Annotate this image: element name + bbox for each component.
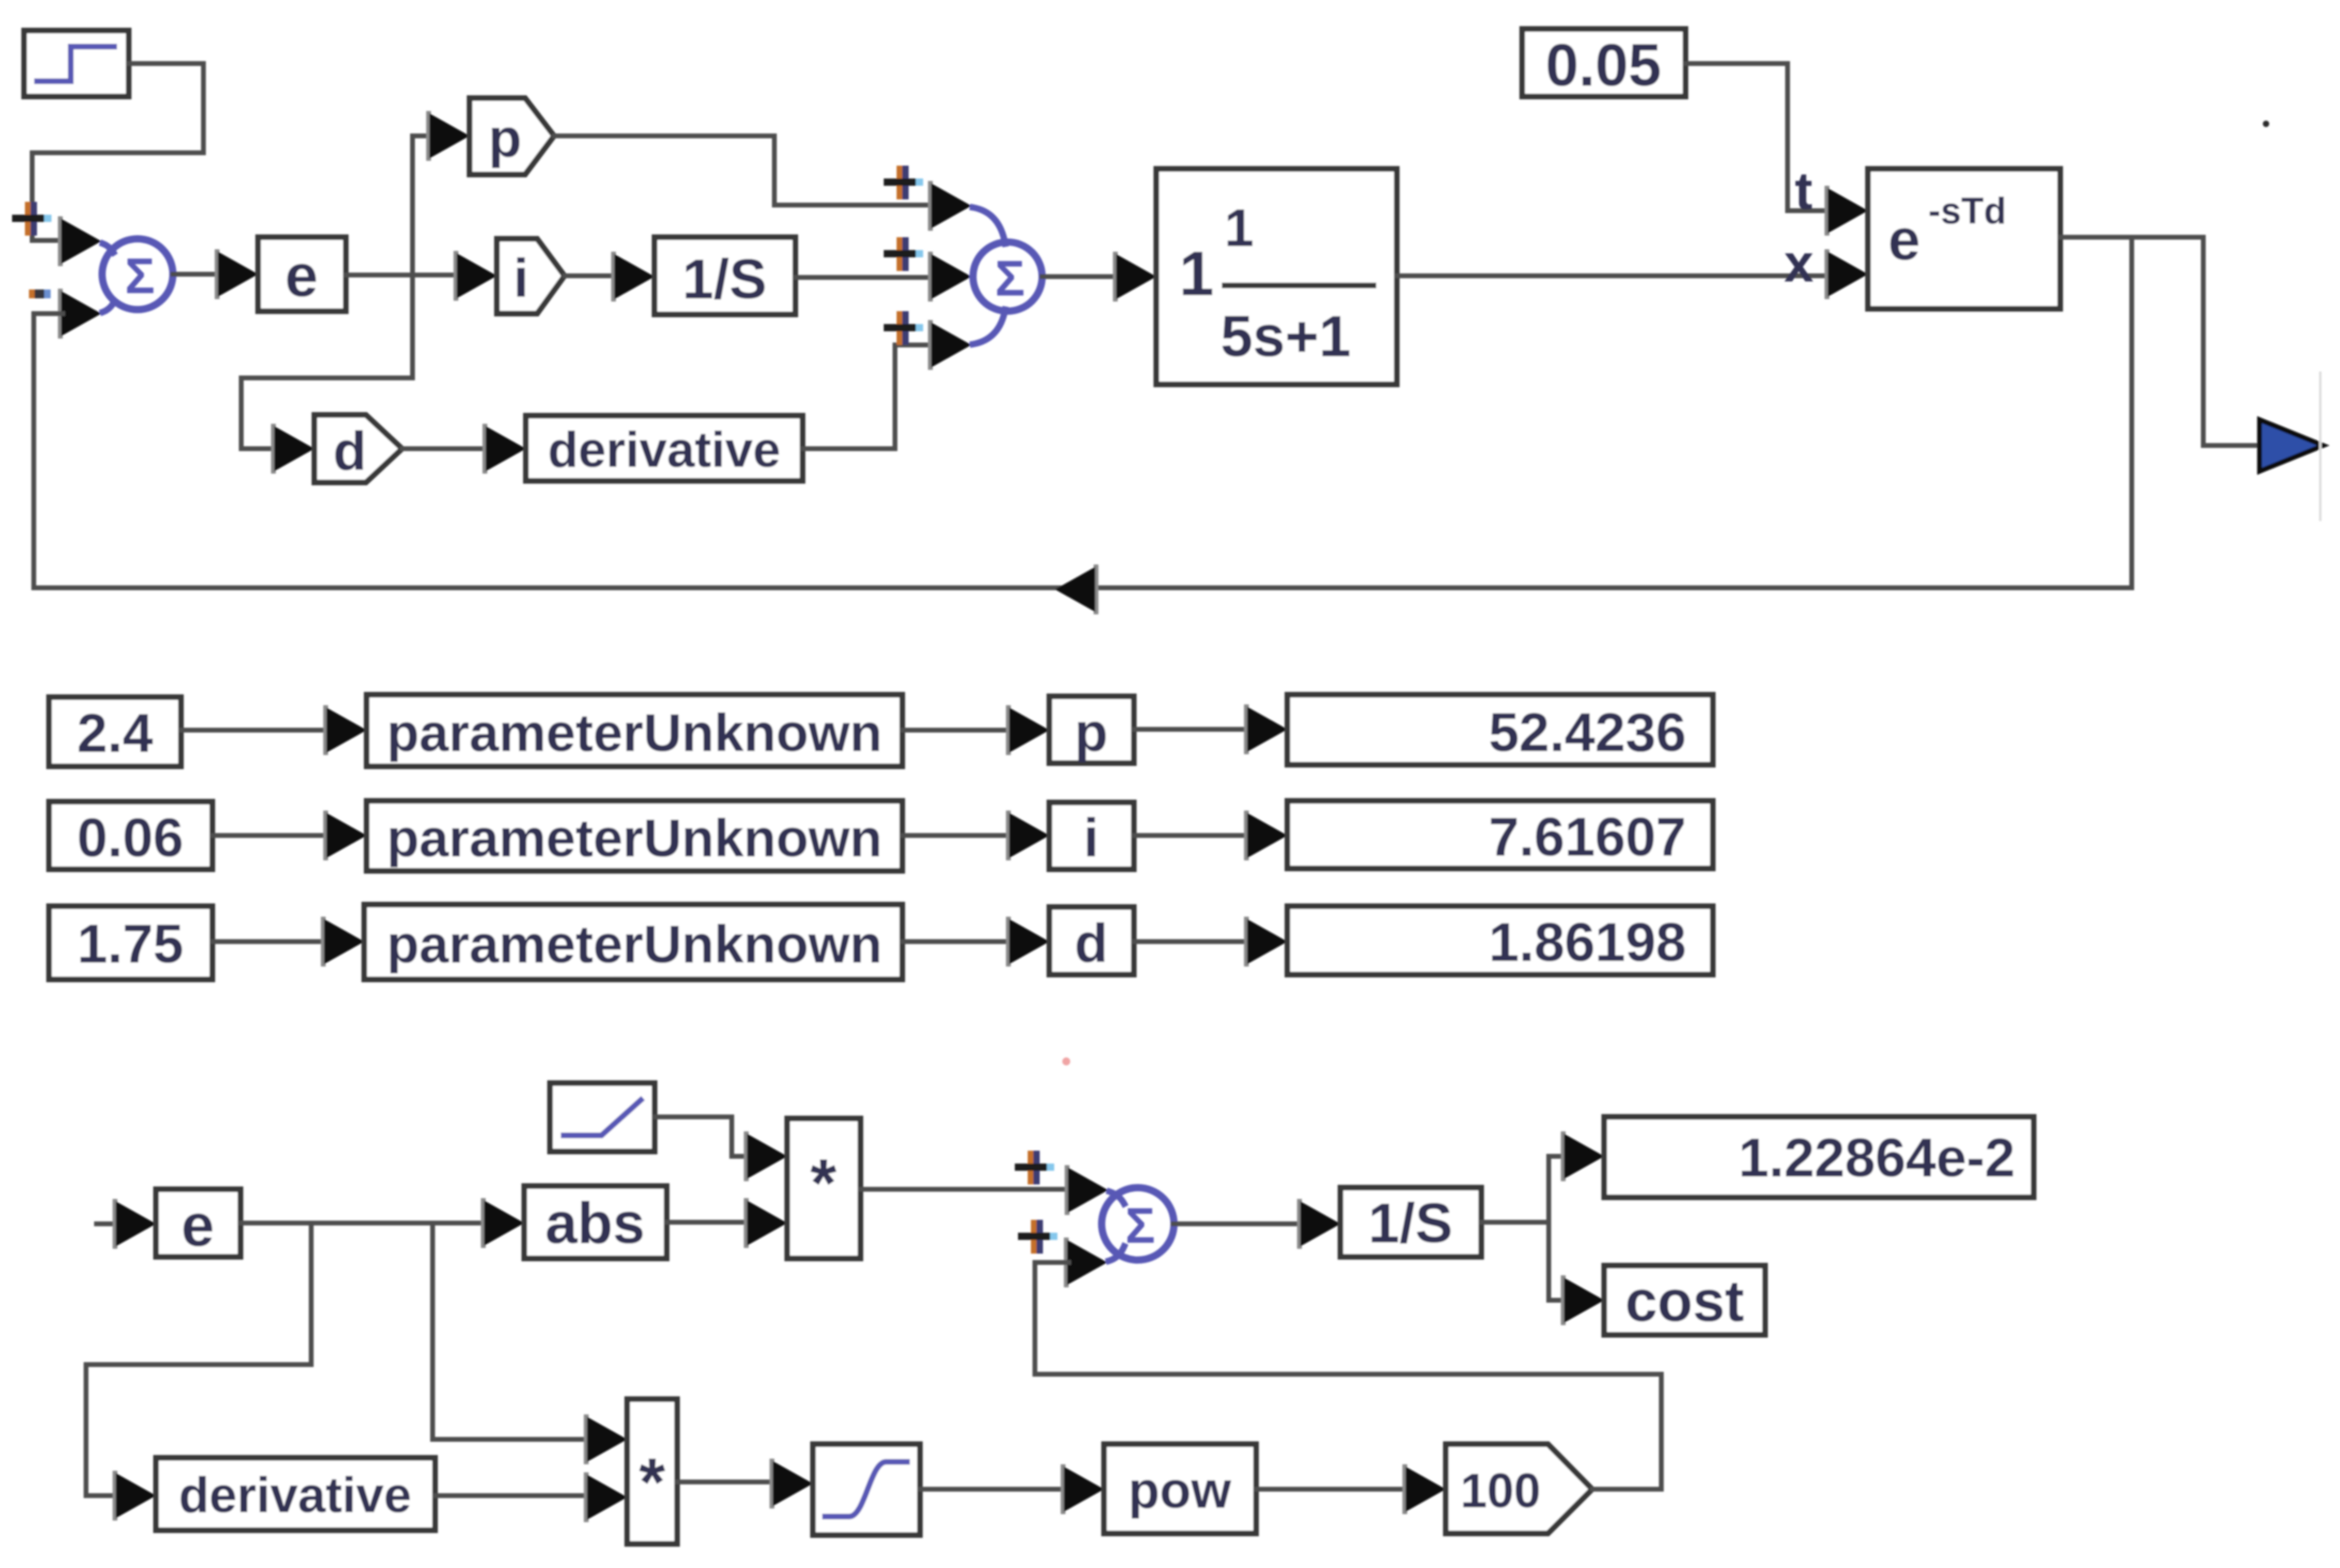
arrowhead into integrator 1/S <box>611 252 655 302</box>
svg-text:e: e <box>1888 208 1920 273</box>
svg-text:x: x <box>1784 233 1814 293</box>
svg-text:0.06: 0.06 <box>77 807 183 868</box>
block d (goto tag) <box>1049 907 1134 975</box>
multiplier block M2 <box>627 1399 677 1544</box>
svg-text:derivative: derivative <box>179 1468 412 1524</box>
arrowhead into gain 100 <box>1402 1464 1446 1514</box>
svg-text:1.75: 1.75 <box>77 913 183 975</box>
wire parameterUnknown P to block p <box>902 728 1011 733</box>
svg-text:p: p <box>1074 702 1108 763</box>
svg-text:Σ: Σ <box>125 249 154 305</box>
abs block <box>524 1186 667 1258</box>
wire junction down to gain d <box>241 275 413 449</box>
gain i <box>497 239 564 314</box>
block e (bottom error input) <box>156 1189 240 1259</box>
arrowhead into display 1.22864e-2 <box>1561 1131 1604 1181</box>
wire e to abs (with junctions) <box>240 1221 486 1225</box>
constant block 0.05 <box>1522 29 1685 99</box>
arrowhead into block e <box>215 249 258 299</box>
wire derivative output to summer S2 bottom plus input <box>803 345 933 449</box>
block cost <box>1604 1266 1765 1335</box>
node plus sign S2 bottom <box>884 311 923 345</box>
svg-text:1: 1 <box>1179 238 1213 309</box>
wire e output to gain i input (with junction at x=513) <box>346 273 455 277</box>
summer S3 (cost sum) <box>1102 1188 1174 1261</box>
gain block 100 <box>1446 1444 1592 1533</box>
svg-text:cost: cost <box>1625 1270 1744 1334</box>
svg-text:0.05: 0.05 <box>1546 32 1661 99</box>
node plus sign S3 bottom <box>1018 1220 1057 1254</box>
node minus sign S1 <box>29 289 51 298</box>
svg-text:abs: abs <box>545 1192 645 1256</box>
wire pow output to gain 100 <box>1256 1487 1407 1492</box>
saturation block <box>813 1444 920 1535</box>
output port arrow <box>2260 420 2323 471</box>
wire 1.75 to parameterUnknown D <box>212 939 326 944</box>
wire plant output to delay block x input <box>1397 273 1829 278</box>
display block 1.22864e-2 <box>1604 1117 2034 1197</box>
wire M1 output to summer S3 top plus input <box>860 1187 1069 1192</box>
wire gain p output to summer S2 first plus input <box>554 136 933 205</box>
arrowhead into S3 top input <box>1065 1165 1108 1215</box>
arrowhead into parameterUnknown P <box>323 705 367 755</box>
svg-text:100: 100 <box>1460 1464 1541 1518</box>
block p (goto tag) <box>1049 696 1134 763</box>
arrowhead into block i <box>1006 811 1049 860</box>
wire gain i output to integrator 1/S <box>564 273 615 278</box>
wire derivative output to multiplier M2 bottom input <box>435 1493 589 1498</box>
svg-text:e: e <box>181 1192 214 1259</box>
arrowhead into M2 bottom input <box>584 1472 627 1522</box>
summer S2 (PID sum) <box>973 207 1042 344</box>
arrowhead into display 7.61607 <box>1244 811 1287 860</box>
svg-text:1.86198: 1.86198 <box>1488 912 1686 973</box>
wire block d to display 1.86198 <box>1134 939 1249 944</box>
block i (goto tag) <box>1049 802 1134 869</box>
constant block 0.06 <box>49 802 212 869</box>
wire S3 output to integrator 1/S (bottom) <box>1173 1221 1302 1226</box>
svg-text:Σ: Σ <box>1125 1199 1155 1254</box>
integrator block 1/S <box>655 237 795 314</box>
wire delay output to output port and feedback junction <box>2060 237 2261 445</box>
wire block i to display 7.61607 <box>1134 833 1249 838</box>
arrowhead into M1 bottom input <box>744 1198 787 1248</box>
wire junction down-left to derivative (bottom) <box>86 1223 311 1496</box>
gain p <box>470 98 554 174</box>
derivative block (top) <box>526 416 803 481</box>
artifact dot top right <box>2263 121 2269 127</box>
gain d <box>314 415 402 482</box>
svg-text:parameterUnknown: parameterUnknown <box>387 808 882 868</box>
wire 2.4 to parameterUnknown P <box>181 728 328 733</box>
wire parameterUnknown I to block i <box>902 833 1011 838</box>
svg-text:t: t <box>1795 161 1812 220</box>
arrowhead into M2 top input <box>584 1414 627 1464</box>
constant block 2.4 <box>49 697 181 766</box>
svg-text:d: d <box>1074 913 1108 974</box>
wire junction up to gain p <box>413 136 429 275</box>
arrowhead into S1 plus input <box>58 216 101 266</box>
summer S1 (error sum) <box>102 239 173 312</box>
arrowhead into block d <box>1006 917 1049 967</box>
wire S2 output to plant transfer function <box>1042 274 1118 279</box>
ramp source block <box>550 1083 655 1151</box>
step source block <box>24 31 129 96</box>
arrowhead into derivative (bottom) <box>113 1471 156 1521</box>
svg-text:d: d <box>333 421 367 482</box>
arrowhead into plant transfer function <box>1113 252 1156 302</box>
arrowhead into abs <box>481 1198 524 1248</box>
arrowhead into parameterUnknown I <box>323 811 367 860</box>
constant block 1.75 <box>49 906 212 979</box>
input wire stub to block e (bottom) <box>96 1221 117 1226</box>
derivative block (bottom) <box>156 1458 435 1530</box>
svg-text:*: * <box>811 1145 837 1221</box>
arrowhead into S2 middle input <box>928 252 971 302</box>
arrowhead into pow block <box>1061 1464 1104 1514</box>
arrowhead into gain d <box>271 424 314 474</box>
node plus sign S1 <box>12 202 51 236</box>
plant transfer function block 1/(5s+1) <box>1156 169 1397 384</box>
arrowhead into delay x input <box>1825 249 1868 299</box>
arrowhead into display 1.86198 <box>1244 917 1287 967</box>
svg-text:parameterUnknown: parameterUnknown <box>387 703 882 762</box>
wire M2 output to saturation block <box>677 1480 774 1484</box>
arrowhead into M1 top input <box>744 1131 787 1181</box>
multiplier block M1 <box>787 1119 860 1258</box>
arrowhead into cost block <box>1561 1275 1604 1325</box>
arrowhead on feedback wire (pointing left) <box>1055 564 1098 614</box>
svg-text:7.61607: 7.61607 <box>1488 807 1686 868</box>
wire integrator output to summer S2 middle plus input <box>795 275 933 280</box>
svg-text:2.4: 2.4 <box>77 703 154 764</box>
svg-text:-sTd: -sTd <box>1928 190 2006 232</box>
svg-text:e: e <box>285 243 318 310</box>
block parameterUnknown I <box>367 801 902 871</box>
svg-text:1: 1 <box>1225 198 1254 257</box>
block e (error signal) <box>258 237 346 311</box>
svg-text:parameterUnknown: parameterUnknown <box>387 914 882 974</box>
svg-text:i: i <box>1084 807 1099 868</box>
wire ramp output to multiplier M1 top input <box>655 1117 749 1156</box>
wire 0.05 output to delay block t input <box>1685 64 1829 211</box>
arrowhead into block p <box>1006 705 1049 755</box>
block parameterUnknown P <box>367 695 902 766</box>
pow block <box>1104 1444 1256 1533</box>
svg-text:derivative: derivative <box>548 423 781 478</box>
display block 7.61607 <box>1287 801 1713 868</box>
svg-text:52.4236: 52.4236 <box>1488 702 1686 763</box>
wire parameterUnknown D to block d <box>902 939 1011 944</box>
arrowhead into integrator 1/S (bottom) <box>1297 1199 1340 1249</box>
wire gain d output to derivative block <box>402 446 487 451</box>
wire junction down to multiplier M2 top input <box>433 1223 589 1439</box>
node plus sign S2 top <box>884 166 923 199</box>
svg-text:1.22864e-2: 1.22864e-2 <box>1739 1127 2015 1188</box>
block parameterUnknown D <box>364 905 902 979</box>
time delay block e^-sTd <box>1868 169 2060 309</box>
wire saturation output to pow block <box>920 1487 1065 1492</box>
arrowhead into derivative block <box>482 424 526 474</box>
arrowhead into delay t input <box>1825 186 1868 236</box>
node plus sign S2 middle <box>884 237 923 271</box>
svg-text:Σ: Σ <box>995 252 1024 307</box>
display block 52.4236 <box>1287 695 1713 765</box>
arrowhead into S3 bottom input <box>1064 1238 1107 1287</box>
wire integrator output with branch junction <box>1481 1156 1566 1300</box>
wire abs output to multiplier M1 bottom input <box>667 1220 749 1225</box>
svg-text:1/S: 1/S <box>682 248 766 310</box>
integrator block 1/S (bottom) <box>1340 1188 1481 1257</box>
svg-text:pow: pow <box>1128 1461 1231 1519</box>
wire gain 100 output back to S3 bottom plus input <box>1035 1262 1661 1489</box>
port separator mark <box>2319 371 2322 521</box>
svg-text:5s+1: 5s+1 <box>1221 305 1351 369</box>
artifact dot middle <box>1062 1057 1070 1065</box>
arrowhead into display 52.4236 <box>1244 704 1287 754</box>
wire 0.06 to parameterUnknown I <box>212 833 328 838</box>
svg-text:p: p <box>488 108 522 169</box>
wire block p to display 52.4236 <box>1134 727 1249 732</box>
node plus sign S3 top <box>1015 1151 1054 1184</box>
arrowhead into gain p <box>426 111 470 161</box>
arrowhead into S2 bottom input <box>928 320 971 370</box>
arrowhead into block e (bottom) <box>113 1199 156 1249</box>
svg-text:1/S: 1/S <box>1368 1192 1452 1254</box>
svg-text:*: * <box>639 1444 666 1520</box>
display block 1.86198 <box>1287 906 1713 975</box>
arrowhead into S1 minus input <box>58 289 101 339</box>
arrowhead into saturation block <box>770 1459 813 1508</box>
arrowhead into parameterUnknown D <box>321 917 364 967</box>
arrowhead into S2 top input <box>928 181 971 231</box>
svg-text:i: i <box>514 248 529 309</box>
arrowhead into gain i <box>454 251 497 301</box>
wire step output to summer S1 plus input <box>32 64 203 240</box>
wire feedback from junction down and left to S1 minus input <box>34 237 2132 588</box>
wire S1 output to block e <box>173 272 219 277</box>
